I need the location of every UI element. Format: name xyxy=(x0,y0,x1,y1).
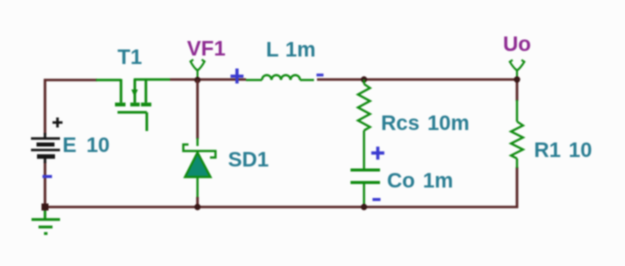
node VF1 xyxy=(191,60,205,80)
resistor R1 xyxy=(511,100,523,168)
wire source to node maroon segment xyxy=(170,78,246,81)
capacitor Co xyxy=(351,170,381,206)
label E 10 xyxy=(63,134,110,157)
svg-text:R1 10: R1 10 xyxy=(534,139,592,162)
junction VF1 dot xyxy=(194,77,200,83)
label R1 10 xyxy=(534,139,592,162)
label Rcs 10m xyxy=(381,112,469,135)
junction Co-bottom dot xyxy=(361,204,367,210)
svg-text:Rcs 10m: Rcs 10m xyxy=(381,112,469,135)
wire bottom rail maroon xyxy=(45,162,517,207)
junction Rcs-top dot xyxy=(361,76,367,82)
svg-text:SD1: SD1 xyxy=(228,149,269,172)
label VF1 xyxy=(187,38,226,61)
battery E1 xyxy=(31,118,63,164)
label SD1 xyxy=(228,149,269,172)
inductor plus mark xyxy=(231,69,244,84)
capacitor minus mark xyxy=(373,198,381,201)
capacitor plus mark xyxy=(371,147,384,160)
junction Uo dot xyxy=(514,76,520,82)
wire VF1 to diode maroon xyxy=(196,80,199,139)
label L 1m xyxy=(266,39,316,62)
svg-text:T1: T1 xyxy=(118,46,143,69)
node Uo xyxy=(510,60,525,80)
resistor Rcs xyxy=(358,80,370,169)
svg-text:E 10: E 10 xyxy=(63,134,110,157)
wire battery to drain green segment xyxy=(96,79,121,82)
label Uo xyxy=(503,33,531,56)
diode SD1 xyxy=(183,138,215,199)
wire top-left maroon segment xyxy=(45,80,97,134)
wire inductor to Uo maroon segment xyxy=(317,80,517,102)
junction diode-bottom dot xyxy=(194,204,200,210)
svg-text:Uo: Uo xyxy=(503,33,531,56)
battery minus mark xyxy=(43,175,53,178)
junction ground corner dot xyxy=(42,204,49,211)
inductor L1 xyxy=(246,75,314,80)
transistor T1 xyxy=(115,79,170,131)
svg-text:Co 1m: Co 1m xyxy=(387,170,453,193)
inductor minus mark xyxy=(317,74,324,77)
svg-text:VF1: VF1 xyxy=(187,38,226,61)
label T1 xyxy=(118,46,143,69)
wire diode to bottom rail maroon xyxy=(196,197,199,207)
label Co 1m xyxy=(387,170,453,193)
svg-text:L 1m: L 1m xyxy=(266,39,316,62)
ground xyxy=(32,207,61,234)
